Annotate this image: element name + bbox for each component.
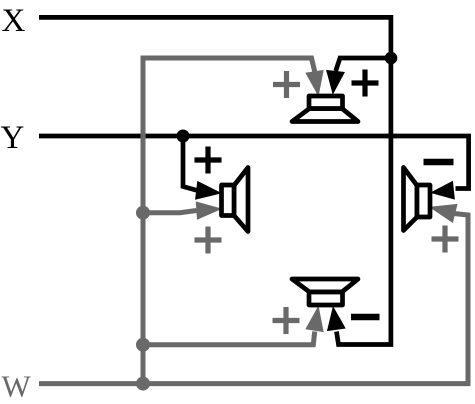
arrow gray into top speaker + terminal	[305, 70, 327, 98]
polarity + (gray) right speaker	[432, 226, 459, 253]
node: gray junction dot at left speaker branch	[136, 206, 150, 220]
wire from X-bus node to top speaker negative	[336, 58, 391, 71]
wire gray vertical trunk with top branch to top speaker positive	[143, 58, 315, 384]
svg-text:W: W	[2, 369, 32, 404]
svg-text:Y: Y	[1, 120, 25, 156]
node: junction dot on Y bus	[177, 130, 190, 143]
speaker SPK-bottom (facing up)	[292, 279, 358, 305]
speaker SPK-top (facing down)	[292, 96, 358, 122]
wire from Y-bus node down to left speaker positive (black)	[183, 136, 197, 190]
wire X bus: horizontal from X terminal, down right side to bottom speaker negative	[39, 17, 391, 344]
node: gray junction dot at bottom speaker branch	[136, 338, 150, 352]
arrow black into top speaker - terminal	[323, 70, 345, 96]
polarity + (black) top speaker	[352, 70, 379, 97]
wire gray branch to left speaker positive	[143, 211, 197, 213]
arrow black into bottom speaker - terminal	[324, 305, 346, 331]
wire Y bus: horizontal from Y terminal, right edge down to right speaker negative	[39, 136, 469, 189]
speaker SPK-right (facing left)	[404, 168, 431, 231]
node: gray junction dot on W bus	[136, 377, 150, 391]
wire W bus: gray horizontal and right-edge vertical up to right speaker positive	[39, 214, 468, 384]
polarity - (black) bottom speaker	[351, 314, 380, 321]
arrow gray into right speaker + terminal	[427, 197, 458, 223]
svg-text:X: X	[2, 3, 26, 39]
arrow black into left speaker upper terminal	[195, 181, 223, 203]
arrow gray into bottom speaker + terminal	[305, 304, 327, 332]
polarity + (gray) left speaker	[195, 227, 222, 254]
arrow black into right speaker - terminal	[429, 181, 455, 202]
polarity + (black) left speaker	[195, 147, 222, 174]
polarity + (gray) top speaker	[273, 71, 300, 98]
polarity - (black) right speaker	[424, 159, 454, 166]
polarity + (gray) bottom speaker	[273, 307, 300, 334]
arrow gray into left speaker lower terminal	[196, 200, 223, 220]
speaker SPK-left (facing right)	[222, 168, 249, 232]
wire gray branch to bottom speaker positive	[143, 332, 315, 345]
node: junction dot on X bus	[385, 52, 398, 65]
